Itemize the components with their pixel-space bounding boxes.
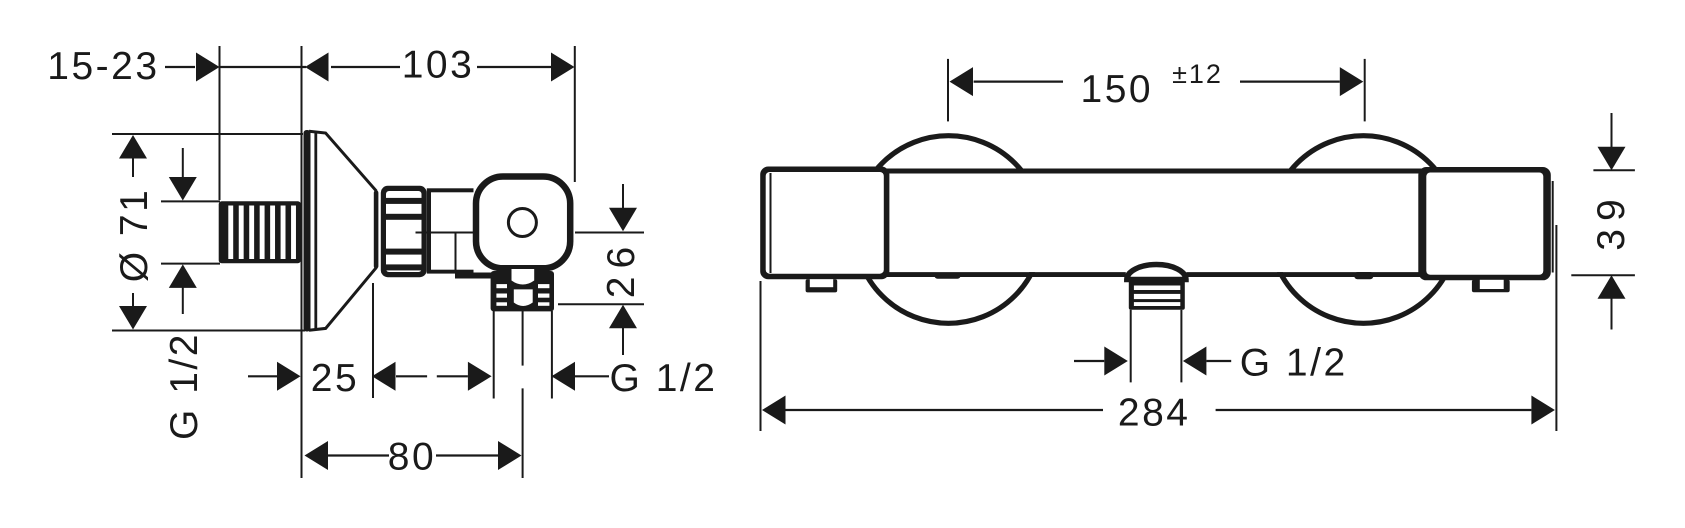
arrow: 39 top down-pointing [1598, 113, 1626, 170]
component: left wall escutcheon circle [855, 136, 1043, 324]
wire: dim 284 extension lines [760, 281, 762, 431]
component: threaded wall pipe [219, 201, 301, 263]
component: center outlet threaded block (front view) [1129, 278, 1185, 310]
component: left end module [760, 167, 889, 280]
wire: thread extension lines left pipe [161, 200, 220, 202]
svg-text:15-23: 15-23 [47, 45, 159, 88]
wire: outlet centerline [522, 309, 524, 366]
arrow: dia71 up [119, 135, 147, 177]
arrow: 150 right-pointing [1340, 67, 1364, 96]
component: escutcheon cone end bar [374, 191, 379, 269]
svg-text:G 1/2: G 1/2 [163, 332, 206, 440]
node: extension line at body right x=574.8 [574, 46, 576, 182]
arrow: G1/2 right view right (left-pointing) [1183, 347, 1207, 376]
component: escutcheon cone outline [309, 131, 377, 330]
arrow: dim 103 right-pointing [551, 53, 575, 82]
wire: top dimension line segments (15-23 / 103) [165, 66, 551, 68]
arrow: G1/2 right view left (right-pointing) [1104, 347, 1128, 376]
svg-text:39: 39 [1590, 191, 1633, 250]
svg-text:80: 80 [388, 436, 436, 479]
node: extension line at wall pipe end x=219.5 [219, 46, 221, 200]
node: extension line at escutcheon face x=301.5 [301, 46, 303, 478]
component: button circle [508, 209, 536, 237]
svg-text:G 1/2: G 1/2 [610, 357, 718, 400]
arrow: thread dim up [169, 264, 197, 314]
component: knurled nut [381, 186, 427, 277]
component: escutcheon flange inner line [314, 131, 317, 330]
node: extension line at cone end x=373 [372, 283, 374, 398]
component: mixer bar body [884, 171, 1422, 275]
component: valve body rectangle [427, 188, 474, 273]
arrow: shared left-pointing at x=305 [305, 53, 329, 82]
wire: dim line 80 y=455.5 [328, 454, 498, 456]
component: bottom outlet threaded block (left view) [491, 269, 554, 311]
svg-text:26: 26 [600, 239, 643, 298]
arrow: G1/2 left (right-pointing) [468, 362, 492, 391]
wire: diameter 71 extension lines [112, 133, 303, 135]
wire: dim 26 vertical + extensions [575, 232, 644, 234]
component: center outlet dome [1127, 265, 1186, 280]
arrow: 284 left-pointing [762, 396, 786, 425]
component: escutcheon flange bar [304, 130, 311, 332]
arrow: 25 right (left-pointing) [372, 362, 396, 391]
wire: dim line 25 / G1/2 bottom y=376.3 [248, 375, 609, 377]
wire: dim 284 line [786, 409, 1104, 411]
component: right module tab [1472, 280, 1510, 292]
arrow: G1/2 right (left-pointing) [552, 362, 576, 391]
svg-text:25: 25 [311, 357, 359, 400]
wire: G1/2 extension lines (right view) [1130, 310, 1132, 383]
component: left mount bump [935, 273, 961, 279]
arrow: 150 left-pointing [950, 67, 974, 96]
arrow: 25 left (right-pointing) [277, 362, 301, 391]
component: right wall escutcheon circle [1270, 136, 1458, 324]
arrow: thread dim down [169, 148, 197, 201]
svg-text:284: 284 [1118, 392, 1191, 435]
arrow: 80 right-pointing [498, 441, 522, 470]
arrow: 80 left-pointing [305, 441, 329, 470]
component: right mount bump [1354, 272, 1373, 279]
wire: dim 150 extension lines [947, 59, 949, 122]
svg-text:150: 150 [1081, 68, 1154, 111]
component: squircle face plate [476, 177, 570, 269]
wire: outlet pipe lines below block [493, 311, 495, 399]
wire: dim 150 line [974, 80, 1063, 82]
wire: G1/2 dim line right view [1074, 360, 1104, 362]
wire: dim 39 extensions [1593, 169, 1635, 171]
arrow: dim 15-23 right-pointing [196, 53, 220, 82]
svg-text:G 1/2: G 1/2 [1240, 342, 1348, 385]
arrow: 39 bottom up-pointing [1598, 275, 1626, 329]
svg-text:Ø 71: Ø 71 [113, 188, 156, 283]
wire: center axis line left view [416, 232, 474, 234]
arrow: dia71 down [119, 293, 147, 330]
component: left module tab [806, 279, 838, 292]
component: body bottom ledge [455, 273, 492, 279]
arrow: 284 right-pointing [1531, 396, 1555, 425]
svg-text:103: 103 [402, 44, 475, 87]
component: right end module [1418, 167, 1552, 280]
svg-text:±12: ±12 [1172, 59, 1223, 89]
